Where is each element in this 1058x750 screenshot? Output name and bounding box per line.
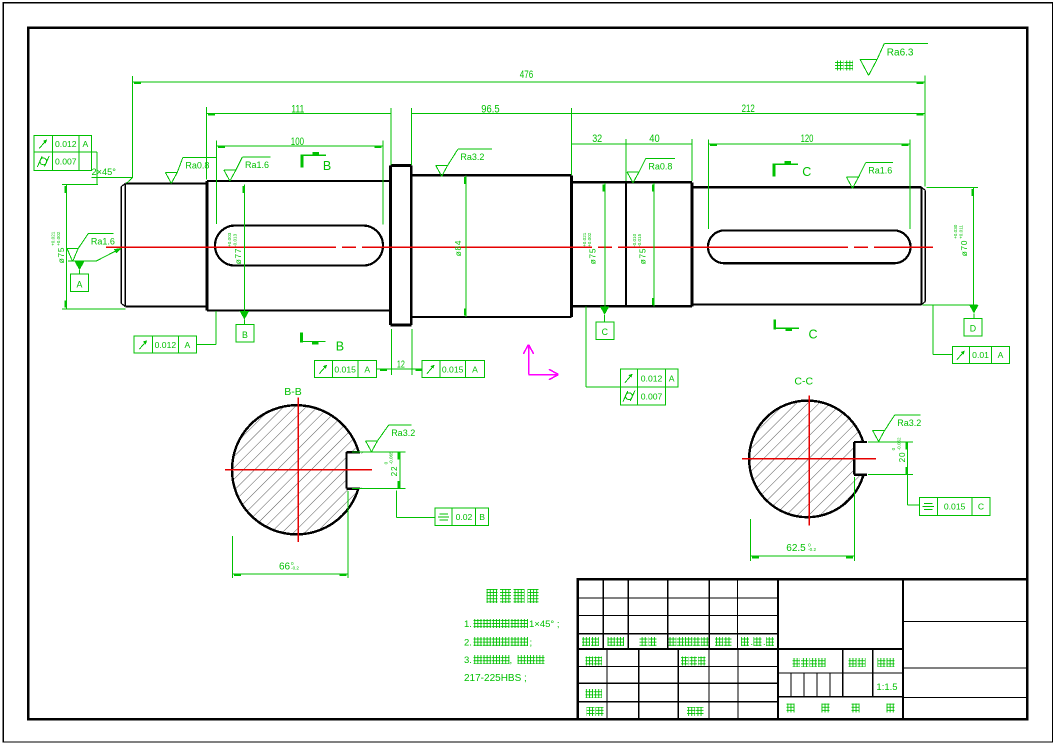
svg-text:-0.2: -0.2: [808, 547, 816, 552]
svg-text:66: 66: [279, 562, 291, 573]
svg-text:1:1.5: 1:1.5: [876, 682, 897, 693]
svg-text:212: 212: [742, 103, 755, 115]
svg-text:D: D: [970, 324, 976, 334]
svg-text:Ra3.2: Ra3.2: [460, 152, 484, 162]
svg-text:A: A: [364, 364, 370, 374]
svg-text:1.: 1.: [464, 619, 472, 630]
svg-text:111: 111: [291, 103, 304, 115]
svg-text:B: B: [479, 512, 485, 522]
svg-text:-0.065: -0.065: [389, 451, 394, 464]
svg-text:C: C: [602, 327, 609, 337]
svg-text:ø70: ø70: [960, 240, 969, 257]
svg-text:ø75: ø75: [589, 248, 598, 265]
svg-text:Ra6.3: Ra6.3: [887, 48, 914, 59]
svg-text:12: 12: [397, 360, 405, 371]
svg-text:ø75: ø75: [638, 248, 647, 265]
svg-text:+0.011: +0.011: [958, 225, 963, 239]
svg-text:Ra3.2: Ra3.2: [897, 418, 921, 428]
svg-text:217-225HBS ;: 217-225HBS ;: [464, 673, 527, 684]
svg-text:;: ;: [530, 638, 533, 649]
svg-text:C-C: C-C: [794, 376, 813, 388]
svg-text:B: B: [336, 340, 344, 354]
svg-text:62.5: 62.5: [786, 543, 806, 554]
svg-text:0.015: 0.015: [442, 364, 464, 374]
svg-text:+0.002: +0.002: [587, 232, 592, 247]
svg-text:0.015: 0.015: [944, 502, 966, 512]
svg-text:,: ,: [510, 655, 513, 666]
svg-text:0.012: 0.012: [55, 139, 77, 149]
svg-text:3.: 3.: [464, 655, 472, 666]
svg-text:Ra1.6: Ra1.6: [245, 160, 269, 170]
svg-text:20: 20: [898, 452, 907, 463]
svg-text:ø84: ø84: [454, 240, 463, 257]
svg-text:A: A: [83, 139, 89, 149]
svg-text:0.012: 0.012: [155, 340, 177, 350]
svg-text:B: B: [242, 330, 248, 340]
svg-text:0.015: 0.015: [334, 364, 356, 374]
svg-text:476: 476: [520, 69, 533, 81]
svg-text:2×45°: 2×45°: [92, 167, 117, 177]
svg-text:0.007: 0.007: [641, 391, 663, 401]
svg-text:Ra1.6: Ra1.6: [868, 165, 892, 175]
svg-text:-0.015: -0.015: [637, 233, 642, 246]
svg-text:40: 40: [649, 133, 659, 145]
svg-text:2.: 2.: [464, 638, 472, 649]
svg-text:-0.013: -0.013: [232, 233, 237, 246]
svg-text:-0.2: -0.2: [291, 565, 299, 570]
svg-text:C: C: [978, 502, 984, 512]
svg-text:0.007: 0.007: [55, 157, 77, 167]
svg-text:Ra0.8: Ra0.8: [185, 160, 209, 170]
svg-text:0.02: 0.02: [456, 512, 473, 522]
svg-text:B-B: B-B: [284, 386, 302, 398]
svg-text:Ra3.2: Ra3.2: [391, 428, 415, 438]
svg-text:C: C: [802, 165, 811, 179]
svg-text:1×45° ;: 1×45° ;: [529, 619, 559, 630]
svg-text:.: .: [763, 637, 766, 647]
svg-text:Ra0.8: Ra0.8: [648, 161, 672, 171]
svg-text:+0.002: +0.002: [56, 231, 61, 246]
svg-text:A: A: [185, 340, 191, 350]
svg-text:C: C: [809, 328, 818, 342]
svg-text:32: 32: [592, 133, 602, 145]
svg-text:A: A: [998, 350, 1004, 360]
svg-text:22: 22: [390, 466, 399, 477]
svg-text:120: 120: [801, 133, 814, 145]
svg-text:-0.052: -0.052: [896, 437, 901, 450]
svg-text:A: A: [472, 364, 478, 374]
svg-text:A: A: [76, 279, 82, 289]
svg-text:Ra1.6: Ra1.6: [91, 236, 115, 246]
svg-text:ø75: ø75: [57, 247, 66, 264]
svg-text:A: A: [669, 373, 675, 383]
svg-text:ø77: ø77: [234, 248, 243, 265]
svg-text:0.012: 0.012: [641, 373, 663, 383]
svg-text:.: .: [751, 637, 754, 647]
svg-text:B: B: [323, 159, 331, 173]
svg-text:96.5: 96.5: [481, 104, 499, 116]
svg-text:100: 100: [291, 136, 304, 148]
svg-text:0.01: 0.01: [972, 350, 989, 360]
